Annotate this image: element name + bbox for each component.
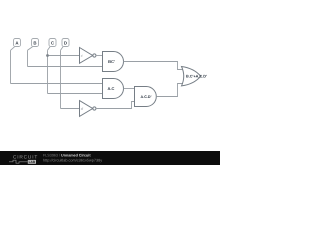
- wire D vertical: [60, 50, 62, 108]
- wire inverter C' output to AND BC' top input: [96, 55, 103, 57]
- wire inverter D' output to AND A.C.D' bottom input: [96, 102, 135, 109]
- junction node C: [46, 54, 49, 57]
- wire C horizontal to AND A.C bottom input: [48, 93, 103, 95]
- AND gate A.C.D' (U5): [135, 87, 157, 107]
- svg-text:B.C'+A.C.D': B.C'+A.C.D': [186, 75, 207, 79]
- svg-text:FLS3963 / Unnamed Circuit: FLS3963 / Unnamed Circuit: [43, 154, 91, 158]
- svg-text:B: B: [33, 41, 36, 46]
- AND gate A.C (U3): [103, 79, 124, 99]
- terminal B tail: [28, 47, 33, 51]
- wire A horizontal to AND A.C top input: [11, 83, 103, 85]
- svg-text:d': d': [81, 107, 84, 111]
- CircuitLab logo waveform: [9, 160, 28, 163]
- wire C branch to inverter C' input: [48, 55, 80, 57]
- wire B vertical: [27, 50, 29, 66]
- svg-text:http://circuitlab.com/c361v5wp: http://circuitlab.com/c361v5wp738y: [43, 159, 102, 163]
- wire C vertical: [47, 50, 49, 93]
- svg-text:A.C.D': A.C.D': [141, 95, 152, 99]
- CircuitLab logo LAB box: [28, 160, 36, 164]
- wire BC' output: [124, 62, 184, 70]
- wire A.C.D' output: [156, 84, 183, 97]
- terminal A tail: [11, 47, 15, 51]
- svg-text:LAB: LAB: [29, 160, 36, 164]
- input terminal C: [49, 39, 56, 47]
- input terminal A: [14, 39, 21, 47]
- wire D horizontal to inverter D' input: [61, 108, 80, 110]
- input terminal B: [32, 39, 39, 47]
- wire A.C output to AND A.C.D' top input: [124, 88, 135, 90]
- terminal D tail: [61, 47, 64, 51]
- svg-text:D: D: [64, 41, 67, 46]
- AND gate BC' (U2): [103, 52, 124, 72]
- inverter C' (U1): [80, 48, 97, 64]
- svg-text:c': c': [81, 54, 84, 58]
- terminal C tail: [48, 47, 51, 51]
- footer bar: [0, 151, 220, 165]
- wire A vertical: [10, 50, 12, 83]
- wire B horizontal to AND BC' bottom input: [28, 66, 103, 68]
- inverter D' (U4): [80, 101, 97, 117]
- OR gate B.C'+A.C.D' (U6): [182, 67, 201, 86]
- input terminal D: [62, 39, 69, 47]
- svg-text:A.C: A.C: [108, 86, 115, 91]
- svg-text:BC': BC': [108, 59, 115, 64]
